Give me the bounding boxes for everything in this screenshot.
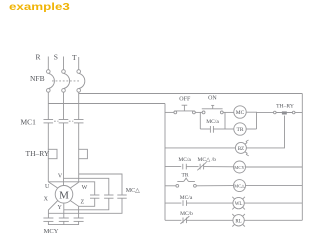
- wire U diagonal: [48, 182, 58, 188]
- MC/a parallel branch wire left: [200, 128, 210, 130]
- wire MCY star bus: [48, 221, 78, 224]
- wire T pole MC1 to TH-RY: [78, 123, 80, 149]
- pushbutton ON: [202, 105, 223, 113]
- coil MCD: [234, 180, 246, 192]
- contactor MCD contact 1: [90, 195, 99, 198]
- svg-text:MC1: MC1: [21, 117, 37, 126]
- wire S supply stub: [63, 57, 65, 70]
- rung6 wire RL to right rail: [244, 219, 302, 221]
- contactor MCY contact X: [43, 218, 53, 221]
- rung1 wire ON to MC coil: [223, 111, 234, 113]
- svg-text:M: M: [59, 189, 69, 201]
- svg-text:W: W: [82, 185, 88, 191]
- contactor MCY contact Y: [59, 218, 69, 221]
- MC/a parallel branch wire right: [213, 128, 225, 130]
- MC/a parallel branch right vertical: [224, 112, 226, 129]
- contact MC/a rung3: [183, 164, 187, 170]
- wire Y down: [63, 203, 65, 218]
- wire S pole NFB to MC1: [63, 92, 65, 119]
- svg-text:WL: WL: [235, 202, 243, 207]
- svg-text:T: T: [72, 53, 77, 62]
- breaker NFB pole S: [62, 70, 70, 93]
- wire T pole NFB to MC1: [78, 92, 80, 119]
- svg-text:MCY: MCY: [44, 228, 59, 235]
- svg-text:RL: RL: [235, 219, 241, 224]
- lamp WL: [232, 197, 245, 210]
- thermal relay TH-RY heater pole R: [48, 149, 57, 158]
- title example3: [9, 1, 70, 13]
- rung5 wire from left rail: [165, 202, 181, 204]
- wire TH-RY common to BZ: [246, 116, 284, 148]
- NFB mechanical link dashed: [52, 80, 80, 82]
- lamp RL: [232, 214, 245, 227]
- control right rail: [301, 94, 303, 221]
- wire X diagonal: [48, 201, 57, 219]
- svg-text:TR: TR: [236, 127, 243, 133]
- svg-text:R: R: [35, 53, 40, 62]
- contactor MCY contact Z: [74, 218, 84, 221]
- rung1 wire to TH-RY contact: [257, 111, 274, 113]
- wire W diagonal: [70, 182, 79, 188]
- rung3 wire from left rail: [165, 166, 181, 168]
- wire delta return 3 to X: [48, 198, 122, 213]
- coil MCY: [234, 161, 246, 173]
- rung1 wire TH-RY to right rail: [295, 112, 302, 114]
- svg-text:MC/a: MC/a: [178, 157, 191, 163]
- svg-text:MC: MC: [236, 110, 245, 116]
- rung6 wire from left rail: [165, 219, 181, 221]
- wire R pole TH-RY to U node: [47, 159, 49, 182]
- wire T supply stub: [78, 57, 80, 70]
- wire TR coil right: [246, 128, 256, 130]
- svg-text:MC△: MC△: [126, 188, 140, 194]
- svg-text:MC△: MC△: [234, 183, 245, 188]
- breaker NFB pole R: [47, 70, 55, 93]
- svg-text:Y: Y: [58, 205, 63, 211]
- svg-text:V: V: [58, 174, 63, 180]
- rung3 wire to MCY coil: [204, 166, 234, 168]
- MC/a parallel branch left vertical: [199, 112, 201, 129]
- contactor MC1 contact pole R: [44, 120, 54, 123]
- svg-text:OFF: OFF: [179, 97, 191, 103]
- thermal contact TH-RY: [274, 111, 296, 114]
- coil MC: [234, 106, 246, 118]
- contactor MCD contact 2: [104, 195, 113, 198]
- rung5 wire WL to right rail: [244, 202, 302, 204]
- wire delta feed A from T pole: [79, 174, 122, 195]
- wire Z diagonal: [70, 201, 78, 219]
- wire R pole MC1 to TH-RY: [47, 123, 49, 149]
- rung2 wire left rail to BZ: [165, 147, 236, 149]
- coil TR: [234, 123, 246, 135]
- wire R supply stub: [47, 57, 49, 70]
- rung4 wire TR contact to MCD coil: [196, 185, 234, 187]
- contact MC/a parallel: [210, 126, 213, 133]
- contactor MC1 contact pole S: [59, 120, 69, 123]
- svg-text:MC△ /b: MC△ /b: [198, 157, 217, 163]
- svg-text:U: U: [45, 184, 50, 190]
- rung4 wire from left rail: [165, 185, 176, 187]
- rung3 wire contact to contact: [186, 166, 198, 168]
- wire delta feed C from R pole: [48, 182, 94, 195]
- svg-text:TR: TR: [181, 173, 188, 179]
- wire S pole MC1 down: [63, 123, 65, 186]
- rung1 wire OFF to ON: [196, 111, 203, 113]
- thermal relay TH-RY heater pole T: [79, 149, 88, 158]
- svg-text:ON: ON: [208, 96, 217, 102]
- rung3 wire MCY coil to right rail: [246, 166, 303, 168]
- svg-text:TH–RY: TH–RY: [276, 104, 294, 110]
- breaker NFB pole T: [77, 70, 85, 93]
- svg-text:NFB: NFB: [30, 74, 45, 83]
- contactor MCD contact 3: [117, 195, 126, 198]
- rung1 wire from left rail: [165, 111, 174, 113]
- svg-text:X: X: [44, 196, 49, 202]
- svg-text:TH–RY: TH–RY: [26, 149, 50, 158]
- svg-text:MC/a: MC/a: [180, 195, 193, 201]
- svg-text:MC/b: MC/b: [180, 211, 193, 217]
- rung6 wire to RL lamp: [187, 219, 234, 221]
- wire delta return 1 to Z: [79, 198, 95, 206]
- MC1 mechanical link dashed: [54, 120, 73, 122]
- motor M circle: [55, 186, 73, 204]
- wire R pole NFB to MC1: [47, 92, 49, 119]
- control left rail: [164, 104, 166, 221]
- contact MC/b rung6: [180, 216, 189, 224]
- wire R-phase tap to control left rail: [48, 103, 165, 105]
- timer contact TR: [176, 178, 196, 187]
- wire T pole TH-RY to W node: [78, 159, 80, 183]
- svg-text:MCY: MCY: [234, 165, 245, 170]
- svg-text:MC/a: MC/a: [206, 119, 219, 125]
- svg-text:S: S: [54, 53, 58, 62]
- svg-text:BZ: BZ: [238, 147, 244, 152]
- wire MC coil to joint: [246, 112, 256, 129]
- wire TR coil left: [225, 128, 234, 130]
- contact MC/a rung5: [183, 200, 187, 206]
- svg-text:Z: Z: [80, 199, 84, 205]
- contact MCD/b rung3: [197, 162, 206, 170]
- pushbutton OFF: [174, 105, 195, 114]
- buzzer BZ: [235, 140, 248, 156]
- wire delta return 2 to Y: [64, 198, 109, 210]
- rung4 wire MCD coil to right rail: [246, 185, 303, 187]
- contactor MC1 contact pole T: [74, 120, 84, 123]
- rung5 wire to WL lamp: [187, 202, 234, 204]
- wire delta feed B from S pole: [64, 178, 109, 195]
- wire T-phase tap to control right rail: [79, 93, 303, 95]
